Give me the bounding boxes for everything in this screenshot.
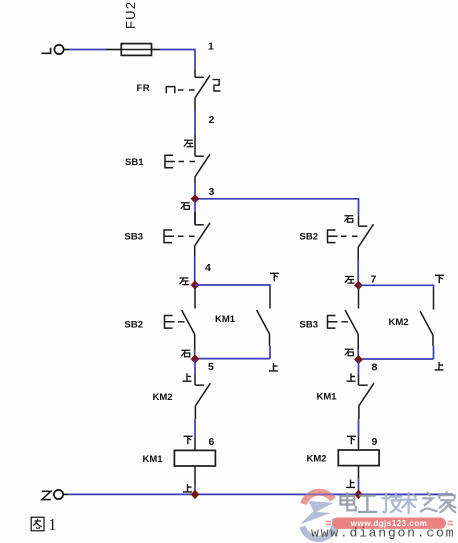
push button SB1 (NC) xyxy=(165,135,210,183)
wire coil KM2 to bus xyxy=(358,466,360,478)
svg-text:FU2: FU2 xyxy=(123,1,138,29)
svg-text:KM1: KM1 xyxy=(215,314,236,325)
marker 右 left of node5 xyxy=(181,350,190,357)
wire parallel branch top (node4 to KM1 aux) xyxy=(195,285,270,288)
contactor interlock contact KM2 (NC) xyxy=(195,375,210,420)
watermark logo swirl xyxy=(300,492,335,539)
家 xyxy=(439,492,455,512)
marker 上 bottom of KM1 aux xyxy=(269,363,278,371)
marker 右 above SB2 right xyxy=(344,216,353,223)
push button SB2 left (NO) xyxy=(165,289,196,350)
marker 左 above SB1 xyxy=(184,140,194,147)
svg-text:KM2: KM2 xyxy=(389,317,409,328)
figure caption 图 1 xyxy=(31,517,44,531)
术 xyxy=(401,493,417,513)
push button SB2 right (NC) xyxy=(328,215,374,260)
node 8 junction xyxy=(354,355,363,364)
node 3 junction xyxy=(191,194,200,203)
marker 左 left of node7 xyxy=(345,277,355,284)
marker 上 bottom of KM2 aux xyxy=(435,362,444,370)
svg-text:KM1: KM1 xyxy=(143,454,164,465)
bus wire N line xyxy=(63,493,68,495)
push button SB3 left (NC) xyxy=(164,199,210,256)
marker 下 top of KM2 aux xyxy=(435,275,444,283)
marker 下 above coil KM1 xyxy=(184,436,193,444)
wire SB1 to node3 xyxy=(194,183,196,199)
wire node8 to KM1 interlock xyxy=(358,360,360,375)
svg-text:SB2: SB2 xyxy=(125,320,143,331)
svg-text:5: 5 xyxy=(208,361,214,373)
svg-text:SB3: SB3 xyxy=(300,320,318,331)
bus junction below KM2 coil xyxy=(354,490,363,499)
coil KM2 xyxy=(338,450,379,466)
svg-text:1: 1 xyxy=(208,41,214,53)
bus junction below KM1 coil xyxy=(191,490,200,499)
marker 左 above node4 xyxy=(179,278,189,285)
svg-text:KM2: KM2 xyxy=(153,392,173,403)
coil KM1 xyxy=(174,450,215,466)
terminal N xyxy=(42,490,63,500)
marker 下 above coil KM2 xyxy=(347,436,356,444)
fuse FU2 xyxy=(121,44,151,56)
marker 上 below coil KM2 xyxy=(346,480,355,488)
marker 上 below coil KM1 xyxy=(183,484,192,492)
wire L to FU2 xyxy=(64,49,69,51)
svg-text:SB2: SB2 xyxy=(300,232,318,243)
contactor aux contact KM2 (NO) xyxy=(420,289,433,360)
svg-text:KM1: KM1 xyxy=(317,392,338,403)
thermal relay contact FR xyxy=(166,69,220,111)
wire KM2 to coil KM1 xyxy=(194,419,196,437)
svg-text:www.diangon.com: www.diangon.com xyxy=(311,526,455,541)
svg-text:2: 2 xyxy=(209,114,215,126)
svg-text:4: 4 xyxy=(205,262,211,274)
svg-text:KM2: KM2 xyxy=(307,454,327,465)
marker 下 top of KM1 aux xyxy=(270,273,279,281)
wire SB3 to node4 xyxy=(194,256,196,285)
svg-text:3: 3 xyxy=(209,186,215,198)
svg-text:FR: FR xyxy=(137,83,151,94)
node 5 junction xyxy=(191,354,200,363)
contactor aux contact KM1 (NO) xyxy=(257,288,270,359)
wire SB3 right to node8 xyxy=(357,349,359,360)
marker 上 above KM1 interlock xyxy=(347,373,356,381)
wire parallel branch top (node7 to KM2 aux) xyxy=(359,285,434,288)
node 7 junction xyxy=(354,281,363,290)
svg-text:SB1: SB1 xyxy=(125,157,144,168)
svg-text:8: 8 xyxy=(372,362,378,374)
wire coil KM1 to bus xyxy=(194,466,196,485)
push button SB3 right (NO) xyxy=(328,289,359,349)
技 xyxy=(382,493,401,512)
terminal L xyxy=(42,45,64,54)
svg-text:SB3: SB3 xyxy=(125,232,143,243)
node 4 junction xyxy=(191,280,200,289)
contactor interlock contact KM1 (NC) xyxy=(359,375,374,420)
marker 右 left of node8 xyxy=(345,349,354,356)
marker 右 below node3 xyxy=(181,203,190,210)
wire SB2 to node5 xyxy=(194,349,196,359)
之 xyxy=(421,493,437,512)
wire FR to SB1 xyxy=(194,111,196,135)
marker 上 above KM2 xyxy=(183,373,192,381)
电 xyxy=(341,493,356,510)
wire parallel branch bottom to node8 xyxy=(359,358,434,360)
wire node3 to right branch xyxy=(195,199,359,216)
svg-text:1: 1 xyxy=(48,515,56,534)
watermark text 电工技术之家 xyxy=(341,492,456,513)
工 xyxy=(359,496,377,512)
wire SB2 right to node7 xyxy=(357,260,359,285)
watermark banner www.dgjs123.com xyxy=(326,518,454,529)
wire parallel branch bottom to node5 xyxy=(195,358,270,360)
wire FU2 to node1 xyxy=(152,49,161,51)
wire node5 to KM2 xyxy=(194,359,196,375)
svg-text:7: 7 xyxy=(371,274,377,286)
svg-text:6: 6 xyxy=(209,436,215,448)
svg-text:9: 9 xyxy=(372,436,378,448)
wire KM1 interlock to coil KM2 xyxy=(358,419,360,437)
